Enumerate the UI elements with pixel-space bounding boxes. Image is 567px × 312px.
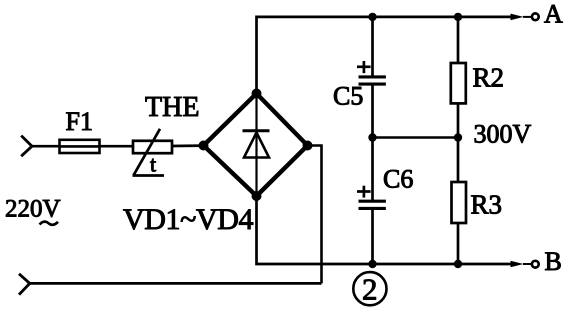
wire thermistor to bridge left vertex [172, 144, 204, 147]
terminal A (arrow + circle) [511, 13, 539, 20]
wire AC riser to bridge right vertex [308, 146, 322, 284]
node R2 bottom / mid rail right [454, 133, 462, 141]
svg-text:F1: F1 [66, 107, 93, 136]
figure number 2 (circled) [353, 272, 386, 307]
wire mid rail [373, 136, 459, 139]
wire bottom input [29, 282, 322, 285]
svg-text:THE: THE [145, 92, 199, 123]
node C5 top [368, 13, 376, 21]
svg-text:C5: C5 [333, 82, 363, 111]
svg-text:R2: R2 [473, 63, 505, 93]
svg-text:220V: 220V [5, 196, 61, 223]
wire negative rail (bridge bottom to B) [257, 196, 512, 264]
svg-text:t: t [150, 152, 156, 177]
svg-text:R3: R3 [471, 190, 503, 220]
node C5 mid [368, 133, 376, 141]
capacitor C6 [357, 138, 386, 265]
svg-text:300V: 300V [474, 120, 532, 149]
diode VD (inside bridge) [243, 94, 270, 197]
svg-text:2: 2 [362, 272, 378, 307]
node R2 top [454, 13, 462, 21]
bridge rectifier VD1~VD4 diamond [204, 94, 308, 197]
label ~ (AC tilde under 220V) [40, 222, 59, 225]
svg-text:VD1~VD4: VD1~VD4 [123, 203, 253, 236]
resistor R3 [452, 138, 467, 265]
node C6 bottom [368, 260, 376, 268]
fuse F1 [60, 140, 100, 153]
node bridge right [303, 141, 313, 151]
svg-text:B: B [545, 247, 562, 276]
wire fuse to thermistor [100, 145, 134, 148]
terminal N (AC neutral input chevron) [19, 274, 30, 295]
svg-text:C6: C6 [383, 165, 413, 194]
thermistor RT [133, 129, 173, 176]
node bridge left [199, 141, 209, 151]
node R3 bottom [454, 260, 462, 268]
terminal L (AC live input chevron) [21, 136, 32, 157]
terminal B (arrow + circle) [511, 261, 539, 268]
node bridge top [252, 89, 262, 99]
capacitor C5 [357, 17, 386, 138]
wire input to fuse [31, 145, 60, 148]
wire positive rail (bridge top to A) [257, 17, 512, 94]
resistor R2 [451, 17, 466, 138]
node bridge bottom [252, 191, 262, 201]
svg-text:A: A [544, 0, 563, 29]
